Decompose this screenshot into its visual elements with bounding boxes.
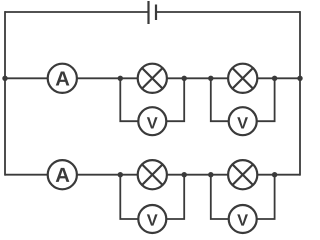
voltmeter V2 [229, 107, 257, 135]
wire battery to top-right [156, 11, 300, 13]
voltmeter V4 [229, 205, 257, 233]
wire row 1 [5, 77, 300, 79]
junction node row1 lamp1 right [182, 76, 187, 81]
junction node row1 lamp2 left [208, 76, 213, 81]
wire voltmeter V1 branch [120, 78, 184, 121]
ammeter A1 [48, 64, 77, 93]
voltmeter V1 [138, 107, 166, 135]
junction node row2 lamp4 left [208, 172, 213, 177]
wire voltmeter V3 branch [120, 175, 184, 219]
wire voltmeter V2 branch [211, 78, 275, 121]
junction node row2 lamp3 left [118, 172, 123, 177]
lamp L4 [228, 160, 257, 189]
junction node row1 right rail [297, 76, 302, 81]
ammeter A2 [48, 160, 77, 189]
lamp L1 [138, 64, 167, 93]
junction node row1 left rail [2, 76, 7, 81]
junction node row1 lamp1 left [118, 76, 123, 81]
wire top-left to battery [5, 11, 149, 13]
wire left rail [4, 11, 6, 176]
junction node row2 lamp3 right [182, 172, 187, 177]
voltmeter V3 [138, 205, 166, 233]
lamp L2 [228, 64, 257, 93]
battery B1 [149, 1, 157, 24]
lamp L3 [138, 160, 167, 189]
wire row 2 [5, 174, 300, 176]
junction node row1 lamp2 right [272, 76, 277, 81]
junction node row2 lamp4 right [272, 172, 277, 177]
wire right rail [299, 11, 301, 176]
wire voltmeter V4 branch [211, 175, 275, 219]
